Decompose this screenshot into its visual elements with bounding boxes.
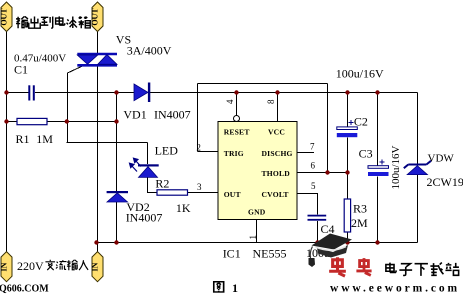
svg-text:8: 8 xyxy=(266,99,276,104)
svg-text:4: 4 xyxy=(225,99,235,104)
svg-text:LED: LED xyxy=(155,144,179,158)
svg-text:IN: IN xyxy=(0,262,9,271)
svg-text:220V: 220V xyxy=(17,259,44,273)
svg-text:C1: C1 xyxy=(14,63,28,77)
svg-text:3: 3 xyxy=(197,182,202,192)
svg-text:GND: GND xyxy=(248,208,266,217)
svg-text:C2: C2 xyxy=(354,114,368,128)
svg-text:VDW: VDW xyxy=(428,153,455,165)
svg-text:C4: C4 xyxy=(321,222,335,236)
svg-text:OUT: OUT xyxy=(0,8,9,26)
svg-text:5: 5 xyxy=(311,181,316,191)
svg-text:3A/400V: 3A/400V xyxy=(127,44,172,58)
svg-text:TRIG: TRIG xyxy=(224,149,244,158)
svg-text:C3: C3 xyxy=(359,147,373,161)
svg-text:2: 2 xyxy=(196,143,201,153)
svg-text:6: 6 xyxy=(311,161,316,171)
svg-text:IN: IN xyxy=(91,262,100,271)
svg-text:DISCHG: DISCHG xyxy=(262,149,293,158)
svg-text:THOLD: THOLD xyxy=(262,169,291,178)
svg-text:IC1: IC1 xyxy=(223,247,241,261)
svg-text:1: 1 xyxy=(232,281,238,294)
svg-text:R3: R3 xyxy=(353,202,367,216)
svg-text:IN4007: IN4007 xyxy=(126,210,163,224)
svg-text:IN4007: IN4007 xyxy=(154,107,191,121)
svg-text:RESET: RESET xyxy=(224,127,250,136)
svg-text:1K: 1K xyxy=(176,201,191,215)
svg-text:100u/16V: 100u/16V xyxy=(390,145,402,189)
svg-text:1: 1 xyxy=(248,235,258,240)
svg-text:R2: R2 xyxy=(155,177,169,191)
svg-text:R1: R1 xyxy=(16,132,30,146)
svg-text:7: 7 xyxy=(310,142,315,152)
svg-text:www.eeworm.com: www.eeworm.com xyxy=(330,283,460,294)
svg-text:CVOLT: CVOLT xyxy=(262,190,289,199)
svg-text:1M: 1M xyxy=(36,132,53,146)
svg-text:OUT: OUT xyxy=(91,8,100,26)
svg-text:OUT: OUT xyxy=(224,190,241,199)
svg-text:2M: 2M xyxy=(351,216,368,230)
svg-text:NE555: NE555 xyxy=(253,247,287,261)
svg-text:VCC: VCC xyxy=(268,127,285,136)
svg-text:2CW19: 2CW19 xyxy=(427,175,463,189)
svg-text:100u/16V: 100u/16V xyxy=(336,67,384,81)
svg-text:VD1: VD1 xyxy=(123,107,146,121)
svg-text:Q606.COM: Q606.COM xyxy=(0,284,49,294)
